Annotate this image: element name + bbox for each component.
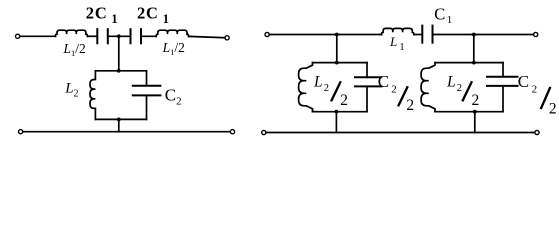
node: left circuit input terminal (top-left open circle) xyxy=(16,34,20,38)
node: right circuit input terminal (top-left open circle) xyxy=(265,32,269,36)
node: junction dot at tank 1 bottom xyxy=(335,110,339,114)
wire: stub from tank bottom to bottom rail (left circuit) xyxy=(118,119,120,131)
inductor L1/2 (left circuit, right coil) xyxy=(156,30,188,36)
capacitor C2 (left circuit shunt) xyxy=(133,86,161,96)
svg-text:2: 2 xyxy=(391,84,397,96)
node: junction dot at tank 1 top xyxy=(335,61,339,65)
capacitor C2/2 (tank 2) xyxy=(487,77,518,86)
svg-text:1: 1 xyxy=(447,14,453,26)
svg-text:L: L xyxy=(446,74,456,91)
svg-text:2: 2 xyxy=(340,92,348,109)
wire: tank 1 right leg lower xyxy=(366,86,368,111)
wire: tank bottom edge (left circuit) xyxy=(95,118,146,120)
node: right circuit output terminal (top-right open circle) xyxy=(534,32,538,36)
wire: tank 2 right leg lower xyxy=(502,86,504,112)
wire: stub from top rail to tank 1 (right circuit) xyxy=(336,35,338,63)
node: right circuit bottom-left terminal xyxy=(262,130,266,134)
inductor L2 (left circuit shunt, vertical coil on left leg) xyxy=(90,71,95,120)
wire: right circuit bottom rail xyxy=(266,132,535,134)
node: junction dot top rail shunt 2 xyxy=(472,33,476,37)
inductor L2/2 (tank 1 vertical coil) xyxy=(299,63,313,112)
node: junction dot top rail shunt 1 xyxy=(335,33,339,37)
wire: stub tank 2 to bottom rail xyxy=(474,112,476,133)
capacitor C2/2 (tank 1) xyxy=(355,77,381,86)
wire: L1a to capacitor 2C1a xyxy=(88,35,98,37)
node: junction dot at tank 2 bottom xyxy=(473,110,477,114)
svg-text:2: 2 xyxy=(549,101,557,118)
value label C2/2 (tank 1) xyxy=(378,72,414,114)
node: junction dot at tank 2 top xyxy=(472,61,476,65)
node: left circuit bottom-right terminal xyxy=(230,130,234,134)
value label C1 xyxy=(434,5,452,27)
capacitor C1 (right circuit series) xyxy=(422,26,432,43)
svg-text:L: L xyxy=(313,74,323,91)
svg-text:2: 2 xyxy=(406,97,414,114)
wire: right circuit top rail, terminal to L1 xyxy=(269,34,381,36)
wire: tank 2 bottom edge xyxy=(435,111,503,113)
svg-text:2C: 2C xyxy=(137,4,159,23)
svg-text:1: 1 xyxy=(399,42,404,53)
node: right circuit bottom-right terminal xyxy=(535,130,539,134)
inductor L1 (right circuit series coil) xyxy=(382,28,414,34)
wire: tank right leg lower (left circuit) xyxy=(146,95,148,119)
value label C2/2 (tank 2) xyxy=(518,72,557,118)
value label 2C1 (first, bold) xyxy=(86,4,118,26)
wire: tank 1 right leg upper xyxy=(366,63,368,78)
svg-text:2: 2 xyxy=(457,83,462,94)
capacitor 2C1 (left circuit, first) xyxy=(97,29,108,43)
wire: left circuit top rail, terminal to L1a xyxy=(20,35,56,37)
wire: tank 2 top edge xyxy=(435,62,503,64)
node: junction dot at tank bottom (left circuit) xyxy=(117,118,121,122)
svg-text:2: 2 xyxy=(472,92,480,109)
svg-text:C: C xyxy=(378,72,389,91)
value label L2/2 (tank 2) xyxy=(446,74,479,110)
wire: L1b to output terminal xyxy=(189,36,225,37)
inductor L1/2 (left circuit, left coil) xyxy=(55,30,87,36)
wire: stub from top rail to tank 2 (right circuit) xyxy=(473,35,475,63)
wire: tank top edge (left circuit) xyxy=(95,70,146,72)
svg-text:C: C xyxy=(434,5,445,24)
wire: L1 to C1 xyxy=(414,34,422,36)
wire: 2C1b to L1b xyxy=(141,35,156,37)
svg-text:1: 1 xyxy=(163,12,169,26)
wire: tank 1 bottom edge xyxy=(313,111,368,113)
wire: tank right leg upper (left circuit) xyxy=(146,71,148,86)
node: junction dot at tank top (left circuit) xyxy=(117,69,121,73)
svg-text:2: 2 xyxy=(324,83,329,94)
wire: C1 to output terminal with junction xyxy=(433,34,534,36)
wire: 2C1a to 2C1b with junction xyxy=(108,35,131,37)
wire: tank 2 right leg upper xyxy=(502,63,504,77)
svg-text:2C: 2C xyxy=(86,4,108,23)
node: left circuit bottom-left terminal xyxy=(19,130,23,134)
wire: left circuit bottom rail xyxy=(23,131,231,133)
svg-text:C: C xyxy=(518,72,529,91)
value label 2C1 (second, bold) xyxy=(137,4,169,26)
wire: shunt stub from top rail down to tank (left circuit) xyxy=(118,36,120,71)
inductor L2/2 (tank 2 vertical coil) xyxy=(421,63,435,112)
svg-text:1: 1 xyxy=(111,12,117,26)
value label L2/2 (tank 1) xyxy=(313,74,348,110)
svg-text:2: 2 xyxy=(532,83,538,95)
svg-text:L: L xyxy=(389,34,397,49)
wire: tank 1 top edge xyxy=(313,62,368,64)
capacitor 2C1 (left circuit, second) xyxy=(131,29,142,43)
node: T-junction dot on top rail (left circuit) xyxy=(117,34,121,38)
value label L1 xyxy=(389,34,405,53)
node: left circuit output terminal (top-right open circle) xyxy=(225,36,229,40)
wire: stub tank 1 to bottom rail xyxy=(335,112,337,133)
